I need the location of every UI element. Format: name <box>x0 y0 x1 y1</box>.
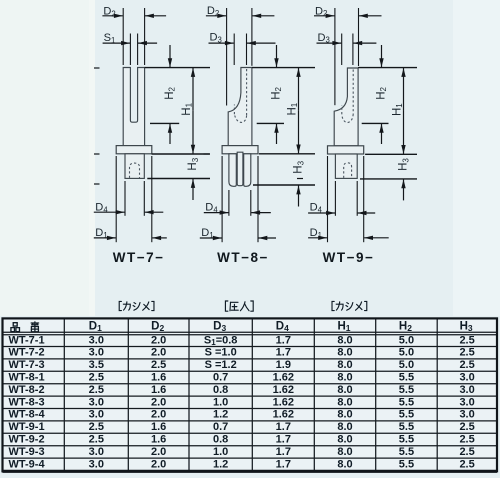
WT-8 flange <box>222 146 258 154</box>
svg-text:1.0: 1.0 <box>213 396 228 408</box>
svg-text:WT−8−: WT−8− <box>217 250 269 265</box>
svg-text:S =1.0: S =1.0 <box>205 347 237 359</box>
reference line: part top plane <box>145 67 210 69</box>
svg-text:2.5: 2.5 <box>89 372 104 384</box>
dimension H3 bottom arrow <box>403 179 405 200</box>
svg-text:H1: H1 <box>337 321 350 334</box>
svg-text:8.0: 8.0 <box>337 372 352 384</box>
reference line: seating plane <box>152 153 210 155</box>
svg-text:2.5: 2.5 <box>89 384 104 396</box>
svg-text:2.5: 2.5 <box>459 446 474 458</box>
dimension D4 arrows <box>204 212 229 214</box>
WT-9 hidden hole (dashed dome) <box>344 163 352 178</box>
svg-text:1.7: 1.7 <box>276 446 291 458</box>
svg-text:WT-8-4: WT-8-4 <box>9 409 46 421</box>
svg-text:8.0: 8.0 <box>337 458 352 470</box>
reference line: seating plane <box>259 153 315 155</box>
dimension H2 bottom arrow <box>169 124 171 144</box>
svg-text:2.5: 2.5 <box>459 458 474 470</box>
svg-text:H2: H2 <box>399 321 412 334</box>
svg-text:1.6: 1.6 <box>151 384 166 396</box>
svg-text:D3: D3 <box>213 321 226 334</box>
svg-text:1.7: 1.7 <box>276 421 291 433</box>
dimension H2 bottom arrow <box>276 124 278 144</box>
svg-text:3.0: 3.0 <box>89 347 104 359</box>
svg-text:WT-7-3: WT-7-3 <box>9 359 45 371</box>
extension lines D4 (boss) <box>228 190 230 216</box>
svg-text:2.0: 2.0 <box>151 446 166 458</box>
extension lines D1 (flange) <box>327 156 329 242</box>
dimension H2 top arrow <box>169 45 171 67</box>
reference line: slot/hole bottom <box>150 122 179 124</box>
svg-text:WT-9-2: WT-9-2 <box>9 434 45 446</box>
svg-text:2.5: 2.5 <box>459 347 474 359</box>
svg-text:WT−7−: WT−7− <box>113 250 165 265</box>
svg-text:2.0: 2.0 <box>151 334 166 346</box>
svg-text:2.5: 2.5 <box>151 359 166 371</box>
reference line: boss bottom <box>253 184 315 186</box>
svg-text:5.5: 5.5 <box>399 384 414 396</box>
WT-7 boss <box>125 154 144 179</box>
svg-text:8.0: 8.0 <box>337 347 352 359</box>
reference line: part top plane <box>358 67 417 69</box>
dimension H1 arrows <box>192 68 194 111</box>
svg-text:5.0: 5.0 <box>399 359 414 371</box>
svg-text:8.0: 8.0 <box>337 409 352 421</box>
extension lines S1 <box>129 34 131 66</box>
svg-text:2.5: 2.5 <box>89 434 104 446</box>
dimension D3 arrows <box>317 42 342 44</box>
reference line: slot/hole bottom <box>257 122 284 124</box>
svg-text:3.0: 3.0 <box>459 409 474 421</box>
lighter right margin band <box>453 0 500 316</box>
svg-text:0.7: 0.7 <box>213 372 228 384</box>
dimension D2 arrows <box>102 15 122 17</box>
extension lines D2 <box>334 8 336 105</box>
svg-text:5.5: 5.5 <box>399 421 414 433</box>
extension lines D1 (flange) <box>221 156 223 242</box>
svg-text:5.5: 5.5 <box>399 372 414 384</box>
svg-text:S =1.2: S =1.2 <box>205 359 237 371</box>
dimension D2 arrows <box>206 15 226 17</box>
svg-text:8.0: 8.0 <box>337 446 352 458</box>
extension lines D3 <box>233 34 235 66</box>
svg-text:WT-8-1: WT-8-1 <box>9 372 45 384</box>
svg-text:D2: D2 <box>151 321 164 334</box>
dimension H2 top arrow <box>276 45 278 67</box>
mounting style label atsunyu (middle) <box>225 301 227 311</box>
svg-text:0.8: 0.8 <box>213 434 228 446</box>
dimension H2 top arrow <box>381 45 383 67</box>
svg-text:3.0: 3.0 <box>89 334 104 346</box>
svg-text:2.0: 2.0 <box>151 347 166 359</box>
svg-text:S1=0.8: S1=0.8 <box>204 334 238 347</box>
svg-text:1.6: 1.6 <box>151 421 166 433</box>
WT-8 press-fit prong left <box>229 154 236 187</box>
table header part-number column 品番 <box>11 323 20 332</box>
svg-text:1.7: 1.7 <box>276 458 291 470</box>
extension lines D4 (boss) <box>124 181 126 216</box>
svg-text:8.0: 8.0 <box>337 421 352 433</box>
dimension D4 arrows <box>308 212 335 214</box>
mounting style label kashime (left) <box>119 301 121 310</box>
svg-text:1.0: 1.0 <box>213 446 228 458</box>
svg-text:8.0: 8.0 <box>337 334 352 346</box>
dimension H3 bottom arrow <box>298 186 300 207</box>
table background <box>3 318 498 471</box>
WT-7 flange <box>116 146 152 154</box>
WT-8 center post <box>237 152 243 186</box>
svg-text:1.7: 1.7 <box>276 434 291 446</box>
dimension D1 arrows <box>200 237 222 239</box>
mounting style label kashime (right) <box>332 301 334 310</box>
svg-text:WT-9-4: WT-9-4 <box>9 458 46 470</box>
reference line: part top plane <box>252 67 315 69</box>
figure WT-7 fork terminal body <box>123 68 144 146</box>
svg-text:8.0: 8.0 <box>337 434 352 446</box>
svg-text:2.0: 2.0 <box>151 396 166 408</box>
svg-text:WT-8-3: WT-8-3 <box>9 396 45 408</box>
svg-text:5.0: 5.0 <box>399 347 414 359</box>
svg-text:1.6: 1.6 <box>151 372 166 384</box>
svg-text:5.5: 5.5 <box>399 458 414 470</box>
WT-9 hidden hole dashed lines <box>352 70 354 115</box>
svg-text:1.62: 1.62 <box>273 409 294 421</box>
figure WT-8 terminal body <box>228 68 252 146</box>
WT-7 hidden hole (dashed dome) <box>130 163 140 178</box>
svg-text:D4: D4 <box>276 321 289 334</box>
svg-text:8.0: 8.0 <box>337 396 352 408</box>
svg-text:3.0: 3.0 <box>459 384 474 396</box>
dimension S1 arrows <box>103 42 130 44</box>
svg-text:0.8: 0.8 <box>213 384 228 396</box>
WT-8 hidden hole dashed lines <box>246 69 248 116</box>
svg-text:1.62: 1.62 <box>273 396 294 408</box>
svg-text:1.2: 1.2 <box>213 409 228 421</box>
svg-text:2.0: 2.0 <box>151 409 166 421</box>
reference line: boss bottom <box>147 178 210 180</box>
svg-text:D1: D1 <box>89 321 102 334</box>
svg-text:5.5: 5.5 <box>399 409 414 421</box>
svg-text:0.7: 0.7 <box>213 421 228 433</box>
dimension H1 arrows <box>403 68 405 111</box>
dimension H1 arrows <box>298 68 300 111</box>
WT-9 flange <box>328 146 364 154</box>
svg-text:1.62: 1.62 <box>273 384 294 396</box>
witness stub marks left of figures <box>94 67 100 69</box>
dimension D3 arrows <box>209 42 234 44</box>
svg-text:WT−9−: WT−9− <box>323 250 375 265</box>
reference line: slot/hole bottom <box>362 122 389 124</box>
svg-text:5.5: 5.5 <box>399 434 414 446</box>
svg-text:1.6: 1.6 <box>151 434 166 446</box>
svg-text:3.0: 3.0 <box>89 409 104 421</box>
svg-text:WT-8-2: WT-8-2 <box>9 384 45 396</box>
svg-text:1.7: 1.7 <box>276 334 291 346</box>
svg-text:3.0: 3.0 <box>89 396 104 408</box>
table outer border <box>3 318 498 471</box>
svg-text:H3: H3 <box>460 321 473 334</box>
extension lines D1 (flange) <box>115 156 117 242</box>
dimension D2 arrows <box>314 15 335 17</box>
svg-text:8.0: 8.0 <box>337 384 352 396</box>
reference line: boss bottom <box>360 178 417 180</box>
extension lines D3 <box>341 34 343 66</box>
extension lines D2 <box>122 8 124 65</box>
svg-text:1.2: 1.2 <box>213 458 228 470</box>
svg-text:5.0: 5.0 <box>399 334 414 346</box>
svg-text:3.5: 3.5 <box>89 359 104 371</box>
svg-text:1.62: 1.62 <box>273 372 294 384</box>
figure WT-9 terminal body <box>334 68 358 146</box>
WT-8 press-fit prong right <box>244 154 251 187</box>
dimension H3 bottom arrow <box>192 179 194 200</box>
dimension D1 arrows <box>94 237 116 239</box>
svg-text:WT-9-3: WT-9-3 <box>9 446 45 458</box>
svg-text:3.0: 3.0 <box>89 446 104 458</box>
svg-text:WT-7-1: WT-7-1 <box>9 334 45 346</box>
dimension H2 bottom arrow <box>381 124 383 144</box>
svg-text:2.5: 2.5 <box>459 421 474 433</box>
dimension D4 arrows <box>94 211 125 213</box>
svg-text:1.7: 1.7 <box>276 347 291 359</box>
extension lines D4 (boss) <box>334 181 336 216</box>
dimension D1 arrows <box>308 237 327 239</box>
lighter left margin band <box>0 0 89 316</box>
svg-text:2.0: 2.0 <box>151 458 166 470</box>
WT-9 boss <box>335 154 357 178</box>
svg-text:2.5: 2.5 <box>89 421 104 433</box>
table grid lines <box>3 318 498 471</box>
svg-text:8.0: 8.0 <box>337 359 352 371</box>
extension lines D2 <box>226 8 228 106</box>
svg-text:1.9: 1.9 <box>276 359 291 371</box>
svg-text:2.5: 2.5 <box>459 434 474 446</box>
svg-text:WT-9-1: WT-9-1 <box>9 421 45 433</box>
svg-text:WT-7-2: WT-7-2 <box>9 347 45 359</box>
svg-text:3.0: 3.0 <box>459 396 474 408</box>
svg-text:5.5: 5.5 <box>399 446 414 458</box>
reference line: seating plane <box>365 153 417 155</box>
svg-text:3.0: 3.0 <box>459 372 474 384</box>
svg-text:2.5: 2.5 <box>459 334 474 346</box>
svg-text:2.5: 2.5 <box>459 359 474 371</box>
svg-text:5.5: 5.5 <box>399 396 414 408</box>
svg-text:3.0: 3.0 <box>89 458 104 470</box>
